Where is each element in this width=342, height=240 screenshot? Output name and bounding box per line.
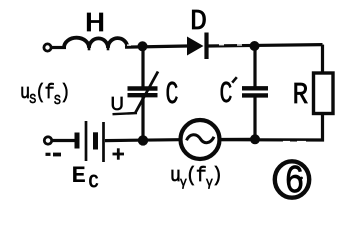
svg-text:D: D xyxy=(190,5,207,38)
svg-text:C: C xyxy=(88,173,99,194)
input terminal (top-left) xyxy=(44,44,51,51)
label C' xyxy=(220,77,233,112)
svg-text:R: R xyxy=(293,77,309,113)
svg-text:E: E xyxy=(72,164,86,189)
label C xyxy=(166,79,179,114)
resistor R body xyxy=(314,73,334,114)
wire node D to AC source xyxy=(105,138,179,142)
node B (junction dot) xyxy=(250,41,260,51)
diode D cathode bar xyxy=(204,33,208,60)
svg-text:6: 6 xyxy=(285,159,305,203)
capacitor C' lower plate xyxy=(242,93,268,97)
battery E_C plate 3 (short thick) xyxy=(93,132,98,149)
figure label circle (6) xyxy=(275,161,309,197)
wire diode to top-right corner xyxy=(208,45,323,46)
label u_S(f_S) xyxy=(20,82,69,109)
svg-text:uS(fS): uS(fS) xyxy=(20,82,69,109)
tuning voltage U underline xyxy=(113,113,138,114)
svg-text:uγ(fγ): uγ(fγ) xyxy=(170,164,222,190)
battery E_C plate 2 (long thin) xyxy=(85,121,88,161)
svg-text:H: H xyxy=(85,9,106,39)
minus sign at battery xyxy=(46,153,51,156)
svg-text:U: U xyxy=(111,93,124,114)
battery E_C plate 1 (short thick) xyxy=(75,133,80,149)
svg-text:C: C xyxy=(166,79,179,114)
variable capacitor C top lead xyxy=(141,46,144,86)
tuning arrow through capacitor C xyxy=(136,72,159,113)
wire terminal to battery xyxy=(53,139,76,142)
wire terminal to inductor xyxy=(52,46,66,49)
capacitor C' top lead xyxy=(253,46,256,87)
wire corner down to resistor xyxy=(321,45,324,74)
label U (tuning voltage) xyxy=(111,93,124,114)
label u_g(f_g) xyxy=(170,164,222,190)
label D xyxy=(190,5,207,38)
battery terminal (bottom-left) xyxy=(44,137,51,144)
AC source sine wave xyxy=(187,135,215,143)
label R xyxy=(293,77,309,113)
label E_C xyxy=(72,164,99,193)
variable capacitor C bottom lead xyxy=(141,97,144,140)
AC source U_g circle xyxy=(181,120,220,159)
capacitor C' upper plate xyxy=(242,86,268,90)
capacitor C' bottom lead xyxy=(253,98,256,140)
variable capacitor C lower plate xyxy=(128,93,158,97)
figure number 6 xyxy=(285,159,305,203)
node A (junction dot) xyxy=(138,41,148,51)
wire inductor to node A xyxy=(125,46,187,47)
svg-text:C: C xyxy=(220,77,233,112)
diode D anode triangle xyxy=(187,37,204,56)
label H xyxy=(85,9,106,39)
wire resistor to bottom-right corner xyxy=(222,114,323,141)
variable capacitor C upper plate xyxy=(128,86,158,90)
speckle dot inside figure label xyxy=(300,177,303,180)
plus sign at battery xyxy=(113,148,125,159)
wire AC source to node C xyxy=(222,138,257,141)
node D (junction dot) xyxy=(138,135,148,145)
scan erosion nicks (white) xyxy=(127,44,306,142)
node C (junction dot) xyxy=(250,134,260,144)
prime mark of C' xyxy=(232,77,237,82)
inductor H xyxy=(64,38,127,48)
battery E_C plate 4 (long thin) xyxy=(102,122,105,162)
